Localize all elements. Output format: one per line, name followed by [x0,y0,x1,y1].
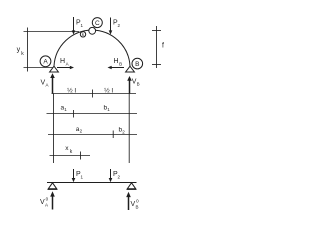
beam support left (triangle with base) [48,183,58,190]
node C (circled label C) [92,18,102,28]
svg-text:A: A [45,203,48,208]
dimension f (arch rise, at right) [152,26,164,68]
svg-text:B: B [137,82,140,87]
svg-text:f: f [162,43,164,50]
extension line below support A [53,94,55,164]
svg-text:B: B [135,61,139,68]
node A (circled label A) [40,56,51,67]
node B (circled label B) [132,58,143,69]
beam reaction VB0 (upward arrow) [126,192,139,210]
svg-text:B: B [136,205,139,210]
svg-text:A: A [66,62,69,67]
dimension line a1 / b1 [47,105,138,118]
dimension line l/2 + l/2 [52,86,137,97]
svg-text:A: A [43,59,48,66]
svg-text:y: y [17,47,21,54]
svg-text:B: B [119,62,122,67]
load P1 on arch (downward arrow) [72,17,84,35]
equivalent beam [47,182,137,184]
beam reaction VA0 (upward arrow) [40,191,55,209]
crown hinge C (small circle on arch) [89,27,96,34]
dimension line a2 / b2 [48,126,137,138]
reaction VB (vertical arrow at B) [127,76,139,94]
reaction HA (horizontal arrow at A) [57,58,74,69]
load P1 on beam (downward arrow) [72,169,84,182]
svg-text:C: C [95,20,100,27]
svg-text:H: H [114,58,119,65]
node k (small circled k on arch) [80,32,85,38]
beam support right (triangle with base) [127,183,137,190]
reaction VA (vertical arrow at A) [41,73,55,93]
arch (three-hinged arch rib from A to B) [54,30,130,66]
support A (pinned support triangle) [50,66,59,72]
reaction HB (horizontal arrow at B) [108,58,125,69]
load P2 on arch (downward arrow) [109,18,121,35]
extension line below support B [128,94,130,164]
svg-text:½ l: ½ l [104,86,114,94]
dimension line xk [50,145,91,160]
support B (pinned support triangle) [126,66,135,72]
svg-text:H: H [60,58,65,65]
load P2 on beam (downward arrow) [109,169,121,182]
dimension yk (vertical dimension at left) [17,28,79,72]
svg-text:A: A [46,83,49,88]
svg-text:½ l: ½ l [67,86,77,94]
